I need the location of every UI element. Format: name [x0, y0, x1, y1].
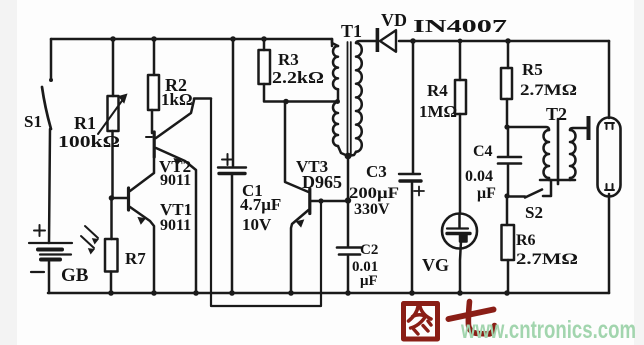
switch S1 [42, 39, 51, 129]
node T1 center tap [335, 99, 340, 104]
resistor R1 [98, 39, 124, 198]
arrowhead VT1 emitter [137, 217, 146, 225]
svg-text:R1: R1 [74, 113, 96, 133]
svg-text:R7: R7 [125, 249, 146, 268]
junction C1 ground [229, 290, 235, 296]
svg-text:330V: 330V [354, 201, 390, 218]
svg-text:4.7μF: 4.7μF [240, 195, 281, 214]
svg-text:R3: R3 [278, 50, 299, 69]
node VT1 base [109, 195, 115, 201]
svg-text:VD: VD [381, 10, 407, 30]
svg-text:200μF: 200μF [349, 185, 399, 202]
junction R4 rail [458, 39, 463, 44]
junction C2 ground [345, 290, 351, 296]
right rail [608, 41, 611, 118]
resistor R7 [105, 198, 118, 293]
capacitor C1 [218, 39, 246, 293]
junction VT2 emitter ground [193, 290, 199, 296]
svg-text:9011: 9011 [160, 217, 191, 234]
svg-text:2.2kΩ: 2.2kΩ [272, 68, 324, 87]
node R5 C4 T2 [504, 124, 509, 129]
capacitor C3 [399, 41, 424, 293]
svg-text:μF: μF [360, 273, 378, 289]
svg-text:GB: GB [61, 265, 89, 286]
svg-text:C3: C3 [366, 162, 387, 181]
light arrows [81, 226, 98, 248]
svg-text:R5: R5 [522, 60, 543, 79]
electrode bar [587, 116, 591, 140]
junction R5 rail [505, 38, 511, 44]
svg-text:T2: T2 [546, 104, 567, 124]
svg-text:C4: C4 [473, 143, 493, 160]
resistor R3 [259, 39, 338, 102]
svg-text:1MΩ: 1MΩ [419, 102, 457, 121]
svg-text:R6: R6 [516, 232, 536, 249]
svg-text:VG: VG [422, 255, 449, 275]
svg-text:S2: S2 [525, 203, 543, 222]
resistor R2 [148, 39, 159, 133]
node windings/base [347, 156, 350, 247]
resistor R4 [455, 41, 466, 213]
junction R3 top rail [261, 36, 267, 42]
svg-text:μF: μF [477, 185, 496, 202]
svg-text:T1: T1 [341, 21, 362, 41]
svg-text:www.cntronics.com: www.cntronics.com [460, 316, 636, 344]
resistor R5 [501, 41, 512, 127]
junction VT3 emitter ground [288, 290, 294, 296]
red caption tu-qi [404, 302, 495, 340]
resistor R6 [502, 196, 515, 293]
diode VD triangle [376, 28, 396, 52]
svg-text:S1: S1 [24, 112, 42, 131]
junction R7 ground [108, 290, 114, 296]
wire top rail [51, 39, 332, 46]
junction R1 top rail [110, 36, 116, 42]
transistor VT3 [285, 102, 348, 294]
arrowhead R1 wiper [118, 94, 128, 104]
svg-text:R4: R4 [427, 81, 448, 100]
junction C1 top rail [230, 36, 236, 42]
arrowhead light ray 1 [92, 238, 99, 244]
svg-text:1kΩ: 1kΩ [161, 90, 193, 109]
transistor VT1 [112, 158, 154, 293]
node T1 winding bottoms [345, 153, 352, 160]
node R3 tap [283, 99, 289, 105]
tube VG [442, 214, 477, 294]
transistor VT2 [146, 99, 211, 294]
capacitor C2 [337, 248, 361, 294]
junction C3 ground [409, 290, 415, 296]
junction VT1 emitter ground [151, 290, 157, 296]
switch S2 [507, 180, 551, 198]
wire bottom rail [48, 292, 609, 295]
svg-text:2.7MΩ: 2.7MΩ [520, 82, 577, 99]
svg-text:0.04: 0.04 [465, 168, 493, 185]
node feedback base [318, 198, 323, 203]
node VT3 base [345, 197, 351, 203]
node C4 S2 R6 [504, 193, 509, 198]
wire feedback loop [211, 99, 321, 307]
svg-text:100kΩ: 100kΩ [58, 132, 120, 151]
svg-text:9011: 9011 [160, 172, 191, 189]
svg-text:C2: C2 [360, 242, 378, 258]
junction R2 top rail [151, 36, 157, 42]
svg-text:IN4007: IN4007 [413, 16, 507, 36]
junction R6 ground [504, 290, 510, 296]
capacitor C4 [498, 127, 521, 196]
node S1 contact [49, 78, 53, 82]
svg-text:2.7MΩ: 2.7MΩ [516, 251, 578, 268]
fluorescent tube [598, 118, 621, 197]
arrowhead light ray 2 [88, 248, 95, 254]
svg-text:D965: D965 [302, 172, 342, 192]
arrowhead VT2 emitter [173, 158, 182, 166]
transformer T1 [332, 39, 376, 156]
diode VD [399, 40, 609, 43]
battery GB [29, 129, 72, 293]
arrowhead VT3 emitter [296, 219, 305, 227]
transformer T2 [507, 119, 586, 184]
junction VG ground [457, 290, 463, 296]
svg-text:10V: 10V [242, 215, 272, 234]
junction C3 rail [410, 38, 416, 44]
